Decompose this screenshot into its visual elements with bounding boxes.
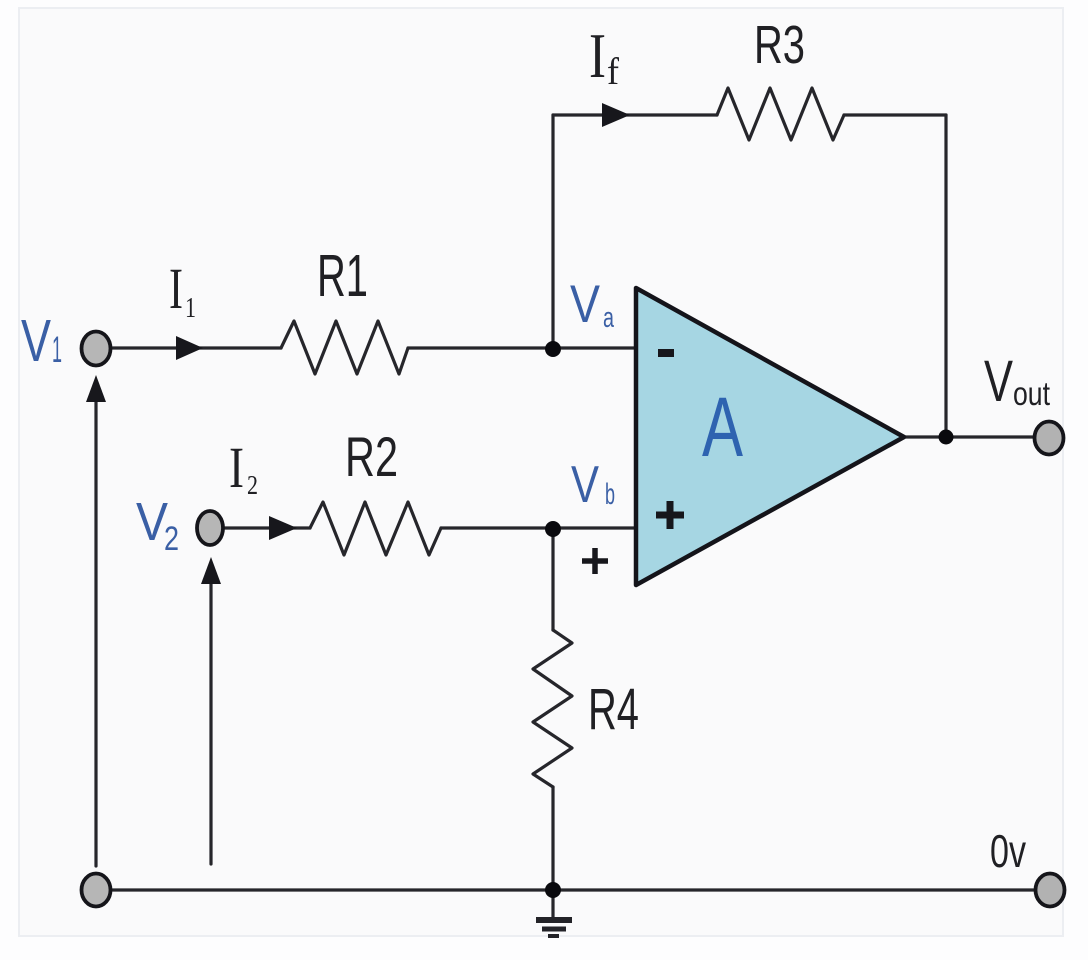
- arrow If: [602, 103, 630, 127]
- wire V1 to R1: [110, 346, 281, 349]
- op-amp plus pin label: [656, 501, 684, 529]
- svg-text:I: I: [229, 435, 244, 500]
- wire feedback top left: [553, 113, 717, 116]
- svg-text:V: V: [571, 456, 599, 514]
- ground stub: [551, 890, 554, 917]
- svg-text:R1: R1: [317, 243, 368, 309]
- svg-text:f: f: [607, 51, 619, 93]
- svg-text:A: A: [702, 380, 743, 474]
- arrow I2: [269, 516, 297, 540]
- svg-text:out: out: [1013, 375, 1050, 412]
- svg-text:R2: R2: [345, 425, 398, 488]
- wire feedback vertical left: [551, 115, 554, 348]
- arrowhead riser V2: [201, 557, 221, 584]
- terminal V1: [82, 332, 111, 366]
- resistor R1: [281, 321, 408, 374]
- wire R1 to Va node: [408, 346, 634, 349]
- arrowhead riser V1: [86, 375, 106, 402]
- node output junction: [939, 430, 954, 445]
- svg-text:V: V: [21, 308, 51, 374]
- node Vb junction: [545, 521, 561, 537]
- svg-text:2: 2: [164, 520, 179, 558]
- wire ground rail: [109, 888, 1036, 891]
- wire riser V2: [209, 583, 212, 864]
- svg-text:a: a: [603, 302, 615, 334]
- svg-text:0v: 0v: [990, 825, 1026, 877]
- svg-text:1: 1: [52, 329, 62, 370]
- ground: [536, 920, 572, 936]
- wire output: [904, 435, 1036, 438]
- wire feedback vertical right: [944, 115, 947, 437]
- node Va junction: [545, 341, 561, 357]
- terminal Vout: [1035, 422, 1064, 455]
- svg-text:V: V: [570, 275, 601, 334]
- wire riser V1: [94, 402, 97, 866]
- terminal V2: [197, 511, 223, 545]
- resistor R4: [533, 630, 572, 787]
- wire feedback top right: [844, 113, 946, 116]
- resistor R3: [717, 88, 844, 140]
- wire V2 to R2: [224, 526, 310, 529]
- node ground junction: [545, 882, 561, 898]
- op-amp minus pin label: [658, 349, 674, 357]
- wire Vb down to R4: [551, 528, 554, 630]
- svg-text:1: 1: [185, 293, 196, 324]
- svg-text:R3: R3: [754, 15, 805, 75]
- terminal rail left: [82, 874, 111, 907]
- svg-text:V: V: [984, 349, 1013, 414]
- wire R4 to ground rail: [551, 787, 554, 890]
- svg-text:b: b: [605, 478, 615, 511]
- plus sign outside: [582, 548, 608, 574]
- svg-text:I: I: [589, 20, 606, 91]
- wire R2 to Vb node: [441, 526, 634, 529]
- resistor R2: [310, 502, 441, 555]
- svg-text:I: I: [169, 256, 183, 321]
- terminal rail right 0v: [1036, 874, 1065, 907]
- svg-text:R4: R4: [588, 677, 639, 742]
- arrow I1: [176, 336, 203, 360]
- op-amp U1: [636, 288, 904, 585]
- svg-text:2: 2: [247, 470, 258, 500]
